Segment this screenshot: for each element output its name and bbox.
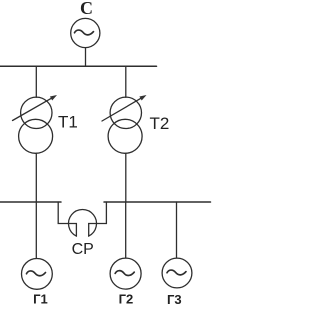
generator G2 tilde xyxy=(115,271,134,276)
transformer T1 upper winding xyxy=(21,97,52,128)
wire T2 to lower bus xyxy=(125,153,127,202)
generator G3 circle xyxy=(162,258,192,288)
svg-text:Г2: Г2 xyxy=(119,291,134,306)
top bus xyxy=(0,65,157,67)
svg-text:Г1: Г1 xyxy=(33,291,48,306)
wire source to top bus xyxy=(85,48,87,67)
transformer T2 lower winding xyxy=(108,119,142,153)
reactor CP inner right drop xyxy=(88,224,90,237)
svg-text:С: С xyxy=(80,0,93,18)
reactor CP right lead xyxy=(89,202,107,224)
svg-text:Т1: Т1 xyxy=(58,113,78,132)
svg-text:СР: СР xyxy=(72,241,94,258)
wire lower bus to generator G3 xyxy=(176,202,178,258)
svg-text:Г3: Г3 xyxy=(167,292,182,307)
reactor CP body xyxy=(69,209,97,236)
wire T1 to lower bus xyxy=(35,153,37,202)
lower bus left section xyxy=(0,201,61,203)
generator G1 circle xyxy=(22,259,53,290)
svg-text:Т2: Т2 xyxy=(150,114,170,133)
source C tilde xyxy=(75,30,94,35)
transformer T1 regulation arrow xyxy=(13,96,56,120)
lower bus right section xyxy=(104,201,211,203)
generator G3 tilde xyxy=(167,270,186,275)
source G (system C) circle xyxy=(71,18,100,47)
reactor CP left lead xyxy=(58,202,76,224)
wire lower bus to generator G2 xyxy=(125,202,127,258)
wire bus to T2 xyxy=(125,66,127,97)
wire bus to T1 xyxy=(35,66,37,97)
transformer T1 lower winding xyxy=(19,119,53,153)
reactor CP inner left drop xyxy=(75,224,77,237)
wire lower bus to generator G1 xyxy=(35,202,37,258)
transformer T2 regulation arrow xyxy=(102,96,145,121)
generator G2 circle xyxy=(110,258,141,289)
transformer T2 upper winding xyxy=(110,97,141,128)
generator G1 tilde xyxy=(27,271,46,276)
